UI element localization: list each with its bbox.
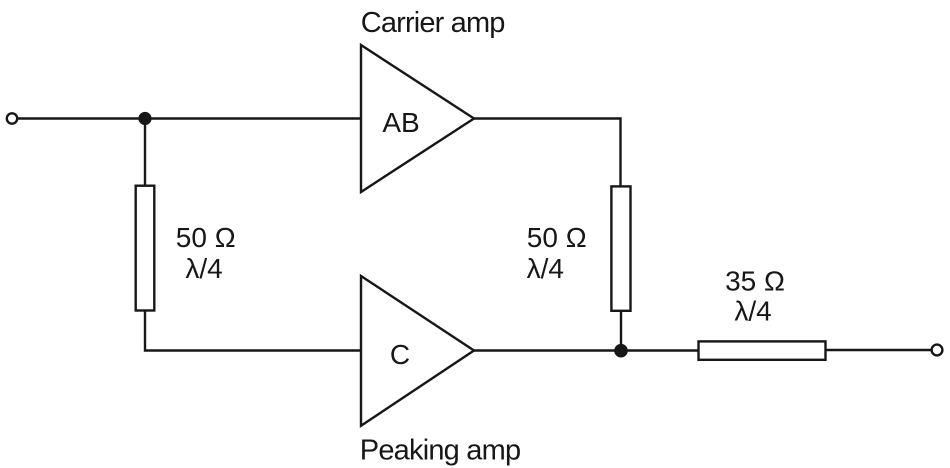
svg-text:AB: AB: [382, 107, 419, 138]
op-amp U1 carrier amp: [361, 45, 474, 192]
transmission line TL2 (50 ohm quarter-wave): [611, 186, 630, 310]
wire node A down to TL1: [144, 119, 146, 187]
svg-text:Carrier amp: Carrier amp: [361, 7, 505, 39]
output terminal: [932, 345, 943, 356]
svg-text:50 Ω: 50 Ω: [176, 222, 236, 253]
wire carrier amp output to TL2: [474, 119, 621, 187]
op-amp U2 peaking amp: [361, 276, 474, 426]
svg-text:35 Ω: 35 Ω: [725, 265, 785, 296]
svg-text:50 Ω: 50 Ω: [527, 222, 587, 253]
node B junction: [614, 344, 628, 358]
svg-text:λ/4: λ/4: [185, 253, 222, 284]
transmission line TL3 (35 ohm quarter-wave): [699, 341, 826, 359]
node A junction: [138, 112, 151, 125]
wire TL3 to output terminal: [826, 349, 932, 351]
wire TL1 bottom to peaking amp input: [145, 311, 361, 351]
wire peaking amp output to TL3: [474, 349, 699, 351]
svg-text:λ/4: λ/4: [734, 296, 771, 327]
svg-text:Peaking amp: Peaking amp: [360, 434, 520, 466]
wire input to carrier amp: [18, 117, 362, 119]
svg-text:λ/4: λ/4: [527, 253, 564, 284]
wire TL2 bottom to node B: [620, 311, 622, 351]
svg-text:C: C: [390, 339, 410, 370]
input terminal: [7, 113, 17, 123]
transmission line TL1 (50 ohm quarter-wave): [136, 186, 155, 311]
